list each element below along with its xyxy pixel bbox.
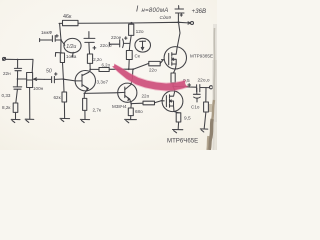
svg-text:22о: 22о: [149, 68, 157, 73]
svg-text:+36В: +36В: [192, 8, 207, 15]
svg-text:62к: 62к: [54, 95, 62, 100]
svg-text:МТР6Ч65Е: МТР6Ч65Е: [167, 138, 198, 145]
svg-text:1ома: 1ома: [66, 54, 77, 59]
svg-text:46к: 46к: [63, 14, 72, 20]
svg-text:С1о: С1о: [191, 104, 200, 109]
svg-text:Сдо9: Сдо9: [160, 15, 172, 21]
svg-text:68о: 68о: [135, 109, 143, 114]
svg-text:М38Ч4: М38Ч4: [112, 104, 127, 109]
svg-text:2,7к: 2,7к: [93, 107, 102, 112]
svg-text:0,33: 0,33: [2, 93, 11, 98]
svg-text:22о,о: 22о,о: [100, 43, 112, 48]
svg-text:22о,о: 22о,о: [198, 78, 210, 84]
svg-text:12о: 12о: [136, 29, 144, 35]
svg-text:22о: 22о: [142, 94, 150, 99]
svg-text:н=800мА: н=800мА: [142, 8, 169, 14]
svg-text:50: 50: [46, 69, 52, 75]
svg-text:2,2о: 2,2о: [93, 57, 102, 62]
svg-text:6,2о: 6,2о: [102, 62, 111, 67]
svg-text:100н: 100н: [33, 86, 44, 91]
svg-text:1/2и: 1/2и: [66, 44, 76, 50]
svg-text:22н: 22н: [3, 71, 11, 76]
svg-text:9,5: 9,5: [184, 116, 191, 122]
svg-text:МТР93б5Е: МТР93б5Е: [190, 54, 213, 59]
svg-text:1мкФ: 1мкФ: [41, 30, 53, 35]
svg-text:3,3о7: 3,3о7: [97, 79, 109, 84]
svg-text:8,2к: 8,2к: [2, 105, 11, 110]
svg-text:22ое: 22ое: [111, 35, 122, 40]
